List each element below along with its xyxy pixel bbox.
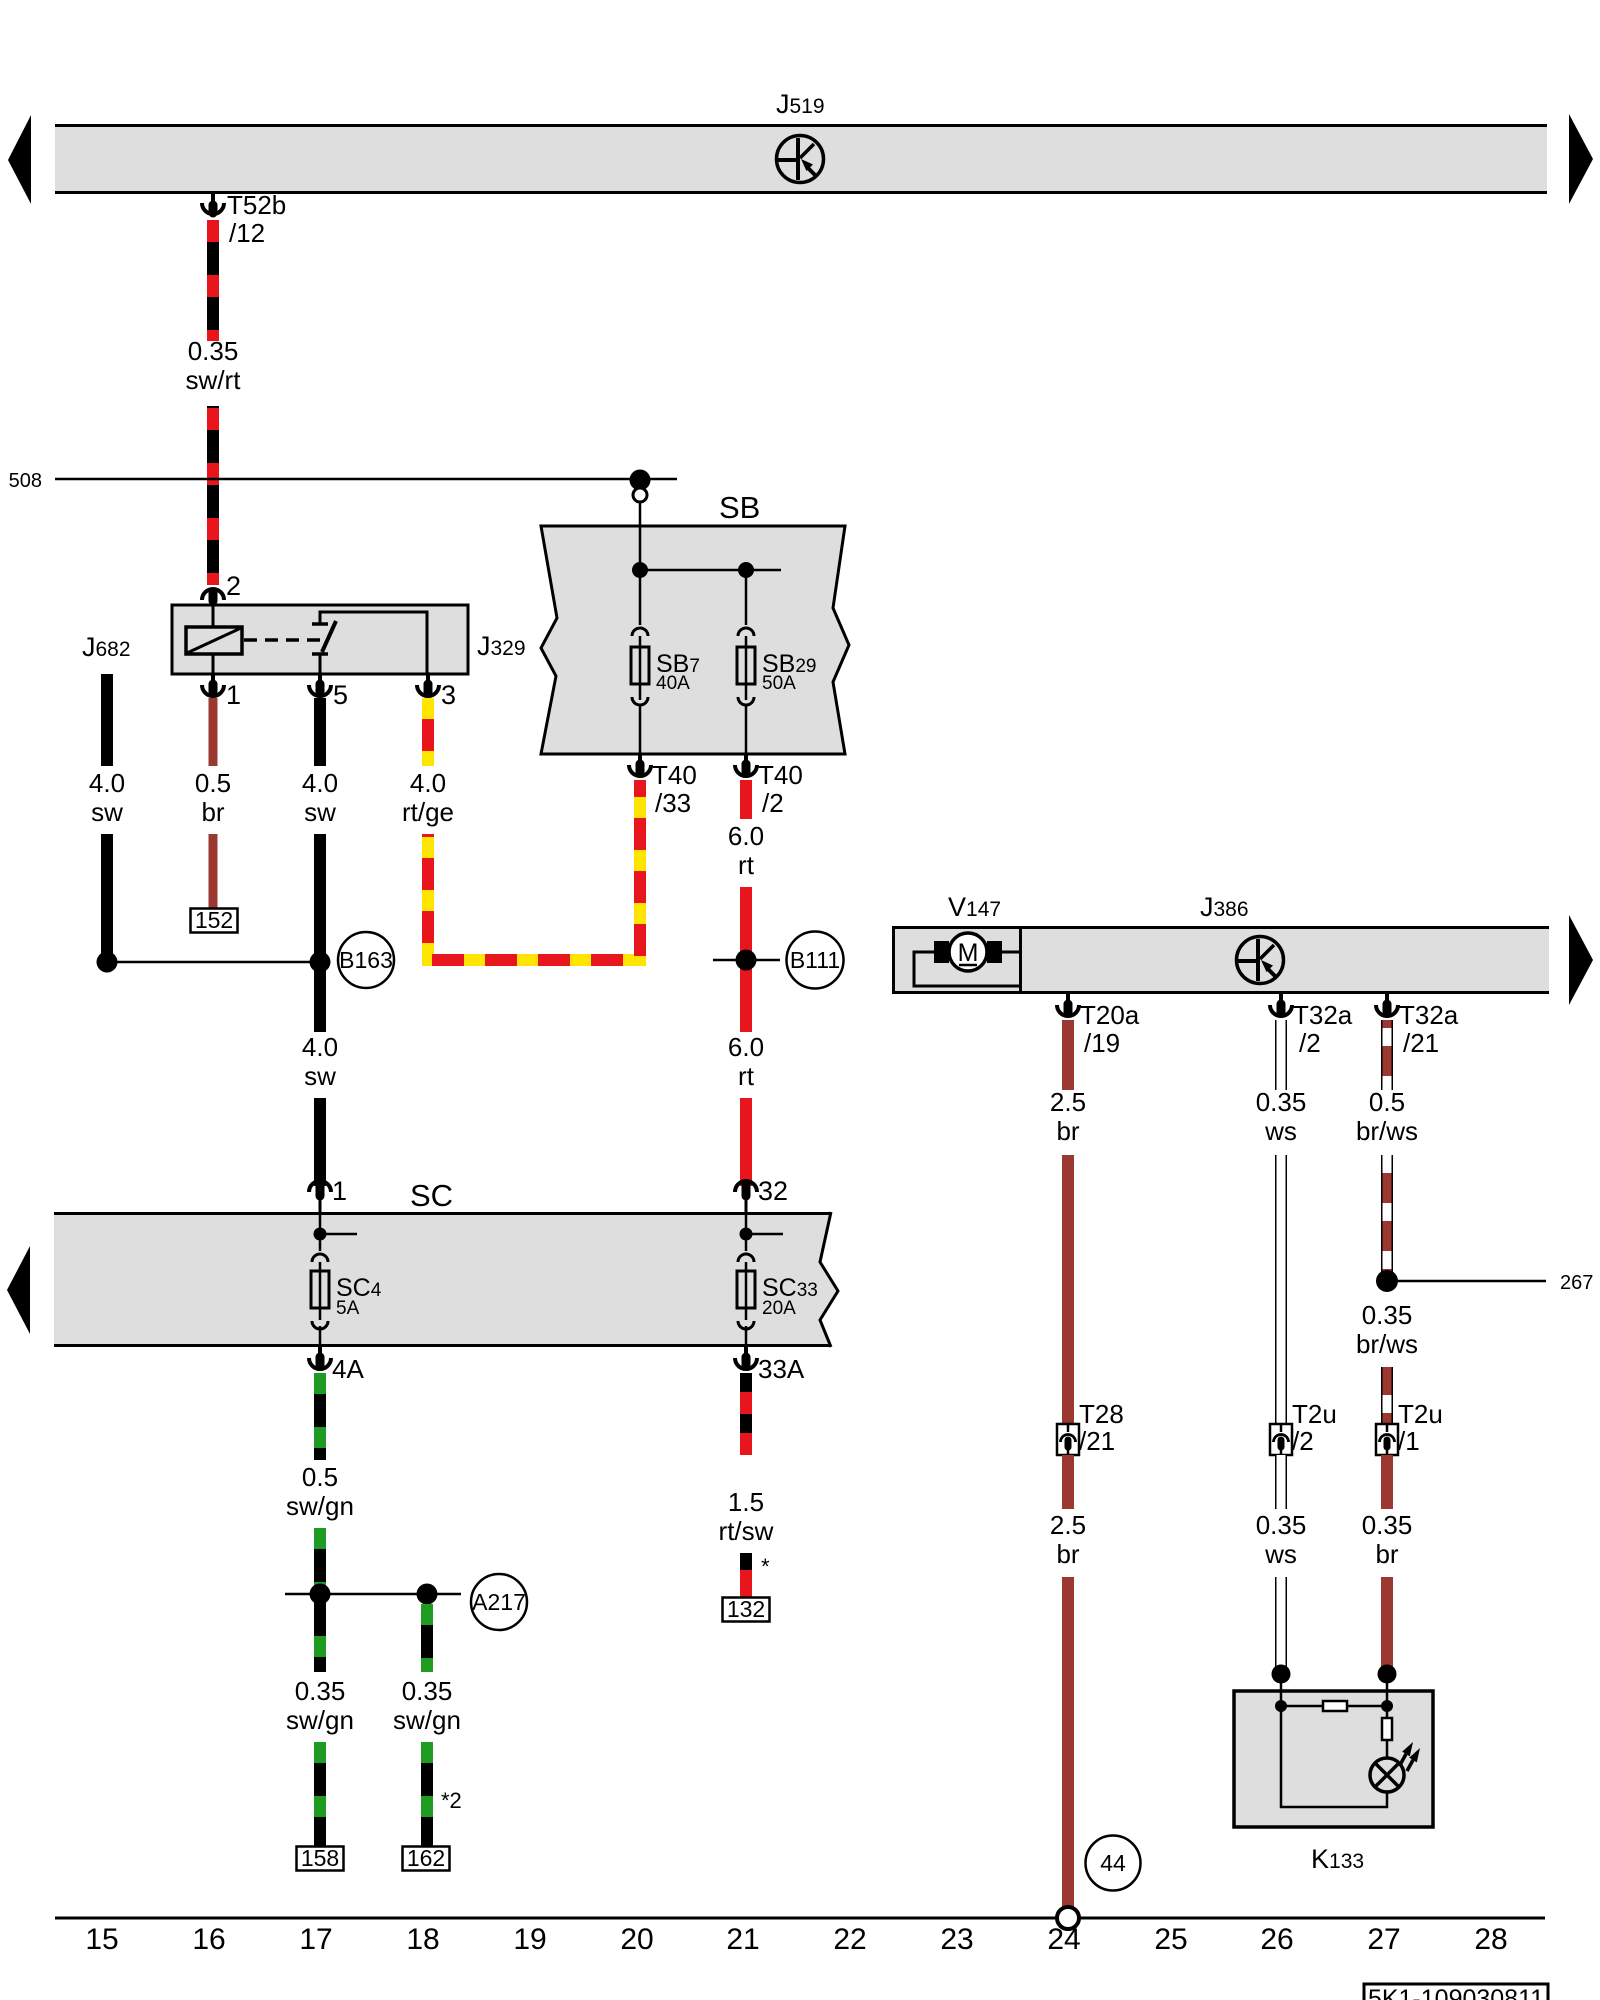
svg-text:/12: /12 — [229, 218, 265, 248]
connector T32a/2 socket arc — [1270, 1005, 1292, 1016]
connector pin 3 socket arc — [417, 685, 439, 696]
page arrow right J386 — [1569, 915, 1593, 1005]
svg-text:rt: rt — [738, 850, 755, 880]
svg-text:/1: /1 — [1398, 1426, 1420, 1456]
svg-text:sw/gn: sw/gn — [393, 1705, 461, 1735]
svg-text:44: 44 — [1100, 1850, 1126, 1876]
connector pin 32 (SC) socket arc — [735, 1181, 757, 1192]
svg-text:T20a: T20a — [1080, 1000, 1140, 1030]
svg-text:B163: B163 — [339, 947, 393, 973]
svg-text:M: M — [958, 939, 979, 967]
svg-text:17: 17 — [299, 1923, 332, 1956]
junction dot left (J682 to B163) — [97, 952, 118, 973]
wire 0.35 ws below T2u — [1275, 1455, 1287, 1509]
svg-text:15: 15 — [85, 1923, 118, 1956]
svg-text:20A: 20A — [762, 1298, 796, 1319]
svg-text:1.5: 1.5 — [728, 1487, 764, 1517]
svg-text:br: br — [1056, 1539, 1079, 1569]
inline connector T2u/1 — [1376, 1424, 1398, 1455]
svg-text:T52b: T52b — [227, 190, 286, 220]
wire 0.5 br/ws upper — [1381, 1020, 1393, 1090]
motor M symbol — [914, 933, 1019, 986]
svg-text:32: 32 — [758, 1176, 788, 1206]
svg-text:158: 158 — [301, 1845, 339, 1871]
connector T32a/21 pin — [1385, 994, 1389, 1012]
svg-text:508: 508 — [9, 470, 42, 492]
svg-text:162: 162 — [407, 1845, 445, 1871]
relay dashed actuating line — [244, 638, 326, 642]
svg-text:4.0: 4.0 — [410, 768, 446, 798]
wire 6.0 rt down to SC pin 32 — [740, 1098, 752, 1186]
connector 33A socket arc — [735, 1358, 757, 1369]
svg-text:4.0: 4.0 — [302, 1032, 338, 1062]
connector pin 32 (SC) pin — [742, 1185, 751, 1213]
svg-text:24: 24 — [1047, 1923, 1080, 1956]
junction dot B163 — [310, 952, 331, 973]
wire br from pin 1 upper — [209, 698, 218, 766]
junction dot A217 left — [310, 1584, 331, 1605]
svg-text:0.35: 0.35 — [1256, 1510, 1307, 1540]
ground box 158 — [297, 1847, 344, 1871]
svg-text:A217: A217 — [472, 1589, 526, 1615]
svg-text:5A: 5A — [336, 1298, 360, 1319]
node circle 44 — [1086, 1836, 1141, 1891]
svg-text:21: 21 — [726, 1923, 759, 1956]
wire 2.5 br to T28 — [1062, 1155, 1074, 1424]
svg-text:0.35: 0.35 — [1362, 1510, 1413, 1540]
ground box 152 — [191, 909, 238, 933]
svg-text:26: 26 — [1260, 1923, 1293, 1956]
svg-text:0.35: 0.35 — [188, 336, 239, 366]
svg-text:18: 18 — [406, 1923, 439, 1956]
wire 0.35 br below T2u — [1381, 1455, 1393, 1509]
svg-text:sw: sw — [91, 797, 123, 827]
node symbol K in J519 — [777, 136, 824, 183]
svg-text:sw: sw — [304, 1061, 336, 1091]
svg-text:152: 152 — [195, 907, 233, 933]
page arrow right top — [1569, 114, 1593, 204]
connector T20a/19 pin — [1066, 994, 1070, 1012]
connector pin 1 socket arc — [202, 685, 224, 696]
wire sw/gn upper — [314, 1373, 326, 1460]
svg-text:19: 19 — [513, 1923, 546, 1956]
lamp emission arrows — [1400, 1742, 1420, 1771]
page arrow left top — [8, 115, 31, 204]
node symbol K in J386 — [1237, 937, 1284, 984]
connector 33A pin — [744, 1347, 748, 1365]
fuse SC33 — [737, 1213, 755, 1347]
svg-text:sw/gn: sw/gn — [286, 1705, 354, 1735]
K133 series resistor horizontal — [1323, 1701, 1347, 1711]
svg-text:5K1-109030811: 5K1-109030811 — [1368, 1985, 1544, 2000]
connector T52b/12 pin — [211, 194, 215, 213]
connector pin 5 socket arc — [309, 685, 331, 696]
svg-text:0.5: 0.5 — [1369, 1087, 1405, 1117]
part number box — [1364, 1984, 1548, 2000]
node circle B111 — [787, 932, 844, 989]
svg-text:2.5: 2.5 — [1050, 1087, 1086, 1117]
svg-text:2: 2 — [226, 571, 241, 601]
wire sw pin5 lower through B163 — [314, 834, 326, 1032]
svg-text:T40: T40 — [652, 760, 697, 790]
svg-text:sw: sw — [304, 797, 336, 827]
svg-text:3: 3 — [441, 680, 456, 710]
wire B111 horizontal link — [713, 959, 780, 962]
svg-text:28: 28 — [1474, 1923, 1507, 1956]
junction dot 267 — [1376, 1270, 1398, 1292]
wire 2.5 br long down to terminal 44 — [1062, 1577, 1074, 1909]
fuse SC4 — [311, 1213, 329, 1347]
svg-text:/2: /2 — [762, 788, 784, 818]
wire sw/gn to ground 158 — [314, 1742, 326, 1846]
svg-text:22: 22 — [833, 1923, 866, 1956]
lamp symbol — [1370, 1758, 1404, 1792]
connector T40/2 pin — [744, 754, 748, 772]
junction dot on 508 line — [630, 470, 651, 491]
wire sw/rt lower segment to relay pin 2 — [207, 406, 219, 585]
junction dot ws at K133 — [1272, 1665, 1291, 1684]
svg-text:1: 1 — [332, 1176, 347, 1206]
wire 6.0 rt to B111 junction — [740, 887, 752, 1032]
connector pin 3 pin — [426, 674, 430, 692]
svg-text:br: br — [201, 797, 224, 827]
ground box 132 — [723, 1598, 770, 1622]
SC33 bus tap — [746, 1233, 783, 1236]
junction dot SB7 top — [632, 562, 648, 578]
connector pin 2 socket arc (above relay) — [202, 589, 224, 600]
connector pin 1 (SC) socket arc — [309, 1181, 331, 1192]
svg-text:/33: /33 — [655, 788, 691, 818]
fuse box SC outline — [54, 1212, 838, 1347]
inline connector T28/21 — [1057, 1424, 1079, 1455]
junction dot B111 — [736, 950, 757, 971]
node circle B163 — [338, 932, 394, 988]
svg-text:sw/rt: sw/rt — [186, 365, 242, 395]
svg-text:br/ws: br/ws — [1356, 1116, 1418, 1146]
connector pin 1 (SC) pin — [316, 1185, 325, 1213]
svg-text:2.5: 2.5 — [1050, 1510, 1086, 1540]
svg-text:25: 25 — [1154, 1923, 1187, 1956]
svg-text:6.0: 6.0 — [728, 821, 764, 851]
svg-text:rt/ge: rt/ge — [402, 797, 454, 827]
svg-text:23: 23 — [940, 1923, 973, 1956]
SC4 bus tap — [320, 1233, 357, 1236]
wire rt/ge lower: down, right, up to T40/33 — [428, 780, 640, 960]
wire 0.35 ws to T2u — [1275, 1155, 1287, 1424]
wire 6.0 rt upper segment — [740, 780, 752, 819]
wire sw from pin 5 upper — [314, 698, 326, 766]
wire 508 horizontal — [55, 478, 677, 481]
svg-text:ws: ws — [1264, 1539, 1297, 1569]
svg-text:rt/sw: rt/sw — [719, 1516, 774, 1546]
connector T52b/12 socket arc — [202, 203, 224, 214]
connector pin 5 pin — [318, 674, 322, 692]
svg-text:/21: /21 — [1403, 1028, 1439, 1058]
K133 dropper resistor vertical — [1382, 1718, 1392, 1740]
svg-text:0.35: 0.35 — [1362, 1300, 1413, 1330]
svg-text:0.35: 0.35 — [1256, 1087, 1307, 1117]
svg-text:*: * — [761, 1554, 770, 1579]
coupling circle below junction — [633, 488, 647, 502]
svg-text:T2u: T2u — [1292, 1399, 1337, 1429]
svg-text:20: 20 — [620, 1923, 653, 1956]
svg-text:*2: *2 — [441, 1788, 462, 1813]
wire ws down to K133 — [1275, 1577, 1287, 1668]
svg-text:0.5: 0.5 — [302, 1462, 338, 1492]
svg-text:5: 5 — [333, 680, 348, 710]
node circle A217 — [471, 1574, 527, 1630]
svg-text:33A: 33A — [758, 1354, 805, 1384]
wire br/ws to T2u/1 — [1381, 1367, 1393, 1424]
ground box 162 — [403, 1847, 450, 1871]
page arrow left SC — [7, 1246, 30, 1334]
wire sw/gn to ground 162 — [421, 1742, 433, 1846]
connector 4A socket arc — [309, 1358, 331, 1369]
svg-text:br: br — [1375, 1539, 1398, 1569]
svg-text:T28: T28 — [1079, 1399, 1124, 1429]
svg-text:50A: 50A — [762, 673, 796, 694]
svg-text:4.0: 4.0 — [302, 768, 338, 798]
relay coil — [186, 605, 242, 674]
lamp K133 box — [1234, 1691, 1433, 1827]
V147 divider — [1019, 926, 1022, 994]
wire 267 horizontal link — [1390, 1280, 1546, 1283]
K133 internal circuit — [1281, 1674, 1387, 1807]
fuse SB29 — [737, 570, 755, 754]
bottom scale line — [55, 1917, 1545, 1920]
K133 junction dots internal — [1275, 1700, 1287, 1712]
svg-text:SB: SB — [719, 490, 760, 525]
control unit J519 bar — [55, 126, 1547, 193]
wire sw/gn middle through A217 — [314, 1528, 326, 1672]
wire rt/sw stub to ground 132 — [740, 1553, 752, 1597]
wire rt/sw upper — [740, 1373, 752, 1455]
inline connector T2u/2 — [1270, 1424, 1292, 1455]
svg-text:267: 267 — [1560, 1272, 1593, 1294]
svg-text:0.35: 0.35 — [402, 1676, 453, 1706]
fuse SB7 — [631, 570, 649, 754]
wire sw/gn branch from A217 — [421, 1604, 433, 1672]
connector T20a/19 socket arc — [1057, 1005, 1079, 1016]
connector pin 2 pin — [209, 592, 218, 606]
relay switch contact and blade — [312, 612, 427, 674]
control unit J386 / motor V147 box — [892, 926, 1549, 994]
svg-text:T32a: T32a — [1293, 1000, 1353, 1030]
svg-text:T40: T40 — [758, 760, 803, 790]
wire 0.35 br/ws middle — [1381, 1155, 1393, 1290]
svg-text:rt: rt — [738, 1061, 755, 1091]
junction dot A217 right — [417, 1584, 438, 1605]
connector T40/33 socket arc — [629, 765, 651, 776]
wire 2.5 br upper — [1062, 1020, 1074, 1090]
svg-text:4.0: 4.0 — [89, 768, 125, 798]
wire sw from J682 upper — [101, 674, 113, 766]
wire br down to K133 — [1381, 1577, 1393, 1668]
svg-text:sw/gn: sw/gn — [286, 1491, 354, 1521]
svg-text:br/ws: br/ws — [1356, 1329, 1418, 1359]
wire rt/ge from pin 3 upper — [422, 698, 434, 766]
svg-text:1: 1 — [226, 680, 241, 710]
wire br lower to ground 152 — [209, 834, 218, 908]
wire 2.5 br below T28 — [1062, 1455, 1074, 1509]
connector T40/2 socket arc — [735, 765, 757, 776]
svg-text:ws: ws — [1264, 1116, 1297, 1146]
svg-text:132: 132 — [727, 1596, 765, 1622]
fuse box SB outline — [541, 526, 849, 754]
svg-text:T32a: T32a — [1399, 1000, 1459, 1030]
junction dot SB29 top — [738, 562, 754, 578]
connector T32a/2 pin — [1279, 994, 1283, 1012]
wire 0.35 ws upper — [1275, 1020, 1287, 1090]
svg-text:/19: /19 — [1084, 1028, 1120, 1058]
junction dot br at K133 — [1378, 1665, 1397, 1684]
svg-text:27: 27 — [1367, 1923, 1400, 1956]
SB internal bus horizontal — [640, 569, 781, 572]
svg-text:br: br — [1056, 1116, 1079, 1146]
svg-text:T2u: T2u — [1398, 1399, 1443, 1429]
wire sw/rt upper segment — [207, 220, 219, 341]
wire A217 horizontal link — [285, 1593, 461, 1596]
svg-text:B111: B111 — [790, 947, 840, 973]
connector T32a/21 socket arc — [1376, 1005, 1398, 1016]
svg-text:/2: /2 — [1292, 1426, 1314, 1456]
svg-text:0.5: 0.5 — [195, 768, 231, 798]
connector 4A pin — [318, 1347, 322, 1365]
svg-text:4A: 4A — [332, 1354, 364, 1384]
svg-text:/21: /21 — [1079, 1426, 1115, 1456]
svg-text:0.35: 0.35 — [295, 1676, 346, 1706]
connector T40/33 pin — [638, 754, 642, 772]
wire B163 horizontal link — [107, 961, 322, 964]
svg-text:6.0: 6.0 — [728, 1032, 764, 1062]
svg-text:/2: /2 — [1299, 1028, 1321, 1058]
relay J329 box — [172, 605, 468, 674]
wire from 508 junction into SB — [639, 502, 642, 570]
terminal ring 44 at scale line — [1057, 1907, 1079, 1929]
connector pin 1 pin — [211, 674, 215, 692]
wire sw J682 lower to junction — [101, 834, 113, 957]
svg-text:SC: SC — [410, 1178, 453, 1213]
svg-text:16: 16 — [192, 1923, 225, 1956]
wire sw down to SC pin 1 — [314, 1098, 326, 1186]
svg-text:40A: 40A — [656, 673, 690, 694]
